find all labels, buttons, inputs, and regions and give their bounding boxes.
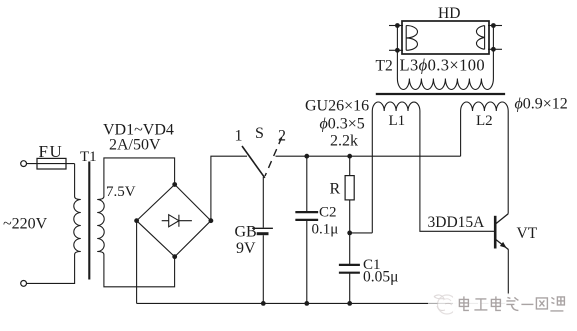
svg-text:L2: L2: [476, 113, 493, 129]
transistor VT emitter arrow: [500, 242, 507, 248]
inductor L2: [461, 102, 509, 214]
node C2 bottom: [304, 301, 309, 306]
node battery bottom: [261, 301, 266, 306]
svg-text:~220V: ~220V: [3, 216, 48, 233]
svg-text:2: 2: [278, 128, 286, 145]
lamp pin stub bottom-right: [488, 48, 502, 50]
transistor VT emitter: [496, 240, 509, 250]
svg-text:GU26×16: GU26×16: [305, 98, 369, 115]
svg-text:0.1μ: 0.1μ: [312, 222, 339, 238]
svg-text:7.5V: 7.5V: [106, 184, 136, 200]
transistor VT base bar: [494, 216, 497, 249]
switch S dashed position 2: [265, 137, 282, 176]
wire top rail right of switch: [276, 155, 461, 157]
node C1 bottom: [347, 301, 352, 306]
svg-text:HD: HD: [438, 5, 460, 22]
inductor L1: [372, 102, 494, 233]
capacitor C1: [349, 233, 351, 304]
lamp pin stub top-right: [488, 25, 502, 27]
svg-text:R: R: [330, 181, 341, 198]
svg-text:2.2k: 2.2k: [330, 133, 358, 150]
lamp electrode left: [406, 26, 417, 51]
watermark text 电工电气一网通: [453, 294, 567, 314]
node lamp bottom-left pin: [395, 48, 400, 53]
terminal top-left: [21, 161, 27, 167]
svg-text:9V: 9V: [236, 240, 256, 257]
node lamp top-right pin: [491, 23, 496, 28]
svg-text:L3ϕ0.3×100: L3ϕ0.3×100: [400, 56, 486, 75]
node C2 top: [304, 154, 309, 159]
lamp pin stub bottom-left: [389, 49, 403, 51]
svg-text:ϕ0.3×5: ϕ0.3×5: [320, 116, 365, 133]
svg-text:1: 1: [235, 128, 243, 145]
watermark logo: [428, 293, 457, 314]
resistor R: [349, 156, 351, 233]
lamp electrode right: [476, 26, 484, 50]
svg-text:T2: T2: [376, 58, 393, 75]
wire battery to bottom rail: [262, 235, 264, 303]
transformer T1 primary: [27, 164, 81, 284]
node bridge right: [209, 218, 214, 223]
inductor L3: [397, 49, 493, 89]
svg-text:ϕ0.9×12: ϕ0.9×12: [515, 96, 568, 113]
node lamp bottom-right pin: [491, 47, 496, 52]
wire lamp left pins vertical: [396, 26, 398, 51]
wire input top: [27, 163, 75, 165]
wire bridge left to bottom rail: [136, 221, 138, 304]
transistor VT collector: [496, 214, 508, 224]
svg-text:L1: L1: [389, 113, 406, 129]
wire switch pole to battery: [262, 177, 264, 228]
node R bottom junction: [347, 231, 352, 236]
wire R junction to L1 left: [350, 232, 373, 234]
fuse FU: [37, 158, 66, 169]
node bridge left: [134, 218, 139, 223]
transformer T1 core: [88, 162, 90, 280]
transformer T2 core: [376, 93, 505, 95]
switch S blade: [242, 146, 265, 178]
node bridge top: [172, 182, 177, 187]
svg-text:GB: GB: [235, 224, 257, 241]
wire bridge right to switch contact 1: [211, 156, 247, 221]
node bridge bottom: [172, 254, 177, 259]
terminal bottom-left: [21, 281, 27, 287]
bridge rectifier diamond: [137, 185, 211, 257]
transformer T1 secondary: [97, 158, 174, 287]
lamp HD envelope: [402, 21, 489, 54]
lamp pin stub top-left: [389, 25, 403, 27]
svg-text:S: S: [255, 125, 264, 142]
wire bottom rail: [137, 302, 509, 304]
svg-text:C2: C2: [319, 205, 337, 221]
svg-text:FU: FU: [39, 142, 64, 161]
battery GB plate short: [257, 232, 269, 235]
battery GB plate long: [252, 227, 273, 229]
bridge diode symbol: [162, 215, 192, 227]
svg-text:VT: VT: [517, 225, 538, 242]
svg-text:2A/50V: 2A/50V: [109, 137, 161, 154]
svg-text:0.05μ: 0.05μ: [363, 269, 398, 286]
node R top: [347, 154, 352, 159]
svg-text:3DD15A: 3DD15A: [428, 214, 486, 231]
capacitor C2: [295, 156, 318, 303]
wire lamp right pins vertical: [492, 26, 494, 50]
node lamp top-left pin: [395, 23, 400, 28]
wire emitter to bottom rail: [507, 249, 509, 303]
